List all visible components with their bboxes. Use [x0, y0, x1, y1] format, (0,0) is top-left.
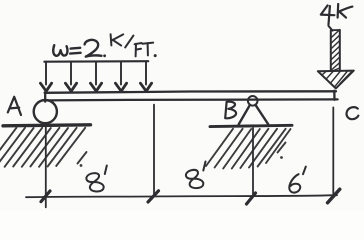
load arrow 4: [115, 62, 126, 91]
load arrow 2: [65, 62, 76, 91]
ground hatch at B: [206, 129, 291, 169]
label A: [8, 97, 21, 115]
pin support at B: [239, 96, 269, 125]
dim tick at C: [328, 189, 340, 203]
load arrow 1: [40, 62, 51, 91]
dim text 8' (middle span): [185, 162, 205, 190]
ground line at A: [3, 125, 91, 126]
point load 4K arrow: [318, 26, 354, 89]
dim tick at B: [247, 193, 256, 204]
load arrow 5: [140, 62, 151, 91]
label 4K: [321, 4, 353, 25]
beam ABC (double line): [45, 91, 338, 102]
ground hatch at A: [0, 128, 86, 167]
label B: [225, 102, 236, 119]
extension line at B: [252, 128, 254, 196]
distributed load top line: [44, 60, 148, 63]
ground line at B: [210, 125, 292, 126]
dim tick mid: [148, 191, 159, 202]
extension line at A: [45, 127, 47, 208]
dim text 6' (right span): [289, 167, 306, 193]
load arrow 3: [90, 62, 101, 91]
dimension line: [26, 195, 337, 197]
extension line at C: [332, 107, 334, 195]
dim text 8' (left span): [86, 166, 107, 194]
dim tick at A: [41, 191, 50, 202]
extension line mid (x=154): [153, 105, 155, 197]
label C: [347, 107, 359, 119]
label w = 2.K/FT.: [53, 34, 156, 57]
roller support at A: [34, 100, 57, 123]
